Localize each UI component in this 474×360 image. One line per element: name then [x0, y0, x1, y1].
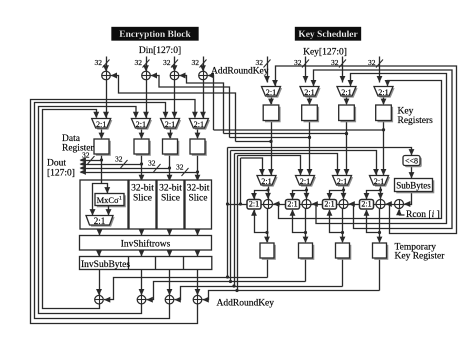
svg-text:SubBytes: SubBytes: [396, 181, 431, 191]
svg-text:32: 32: [135, 58, 143, 67]
svg-text:[127:0]: [127:0]: [47, 169, 75, 179]
svg-text:Slice: Slice: [161, 194, 180, 204]
svg-text:InvShiftrows: InvShiftrows: [121, 239, 171, 250]
svg-text:Data: Data: [62, 134, 81, 144]
svg-text:<<8: <<8: [405, 156, 418, 165]
svg-text:Din[127:0]: Din[127:0]: [139, 46, 181, 56]
svg-text:Register: Register: [62, 144, 94, 154]
svg-text:2:1: 2:1: [341, 88, 351, 97]
svg-text:32-bit: 32-bit: [187, 184, 210, 194]
svg-text:2:1: 2:1: [337, 177, 347, 186]
svg-text:InvSubBytes: InvSubBytes: [81, 260, 130, 270]
svg-text:2:1: 2:1: [266, 88, 276, 97]
svg-text:AddRoundKey: AddRoundKey: [217, 299, 275, 309]
svg-text:Slice: Slice: [189, 194, 208, 204]
svg-text:Dout: Dout: [47, 159, 66, 169]
svg-text:2:1: 2:1: [304, 88, 314, 97]
svg-text:32: 32: [115, 155, 123, 164]
svg-text:2:1: 2:1: [361, 200, 371, 209]
svg-text:MxCo: MxCo: [97, 195, 119, 205]
svg-text:2:1: 2:1: [94, 216, 106, 226]
svg-text:Key[127:0]: Key[127:0]: [303, 48, 347, 58]
svg-text:2:1: 2:1: [378, 88, 388, 97]
svg-text:32-bit: 32-bit: [131, 184, 154, 194]
svg-text:Key: Key: [398, 107, 414, 117]
svg-text:2:1: 2:1: [165, 120, 175, 129]
svg-text:Slice: Slice: [133, 194, 152, 204]
svg-text:-1: -1: [117, 196, 122, 202]
svg-text:32-bit: 32-bit: [159, 184, 182, 194]
svg-text:32: 32: [163, 58, 171, 67]
svg-text:32: 32: [148, 159, 156, 168]
svg-text:2:1: 2:1: [300, 177, 310, 186]
svg-text:32: 32: [176, 163, 184, 172]
svg-text:32: 32: [192, 58, 200, 67]
svg-text:32: 32: [95, 58, 103, 67]
svg-text:AddRoundKey: AddRoundKey: [211, 67, 269, 77]
svg-text:Key Register: Key Register: [395, 252, 446, 262]
svg-text:2:1: 2:1: [96, 120, 106, 129]
svg-text:Rcon [i ]: Rcon [i ]: [406, 210, 440, 220]
svg-text:2:1: 2:1: [374, 177, 384, 186]
svg-text:2:1: 2:1: [324, 200, 334, 209]
svg-text:Encryption Block: Encryption Block: [119, 30, 191, 40]
svg-text:2:1: 2:1: [261, 177, 271, 186]
svg-text:2:1: 2:1: [287, 200, 297, 209]
svg-text:Key Scheduler: Key Scheduler: [298, 30, 358, 40]
svg-text:Registers: Registers: [398, 116, 434, 126]
svg-text:2:1: 2:1: [194, 120, 204, 129]
svg-text:2:1: 2:1: [249, 200, 259, 209]
svg-text:2:1: 2:1: [136, 120, 146, 129]
